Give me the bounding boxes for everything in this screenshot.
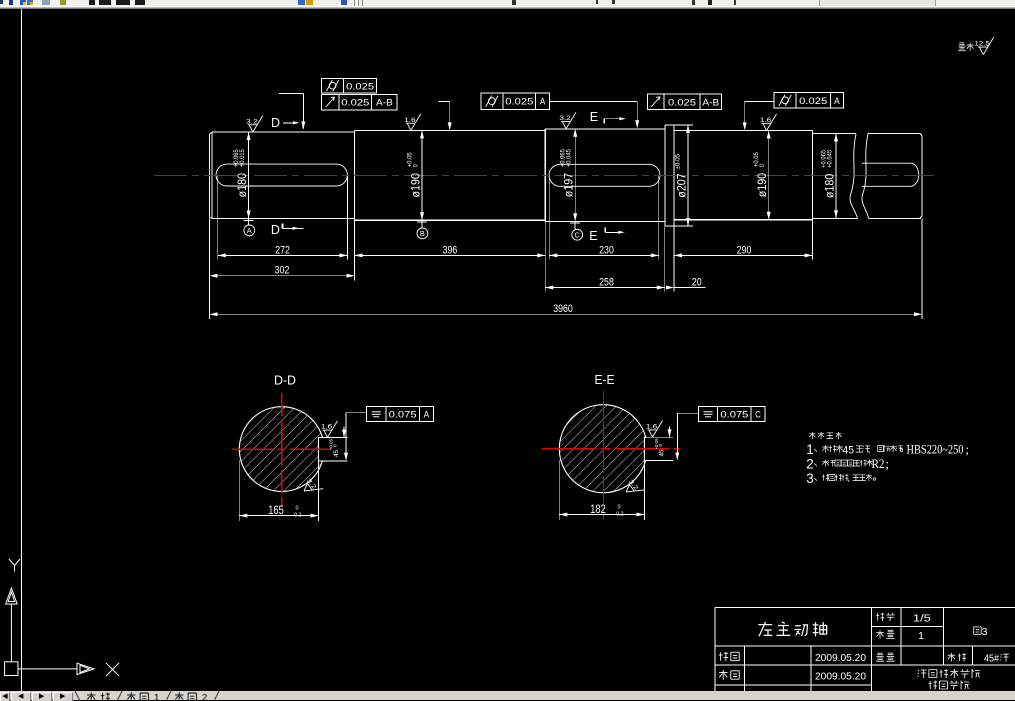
right journal stub before break [813, 134, 858, 219]
svg-text:+0.045: +0.045 [828, 149, 834, 168]
dia dim 190 seg2 [421, 130, 423, 220]
svg-text:±0.05: ±0.05 [675, 153, 682, 169]
svg-text:272: 272 [275, 244, 290, 256]
svg-text:1.6: 1.6 [760, 118, 772, 124]
label 重量 [876, 653, 895, 661]
FCF: circular runout 0.025 A-B [322, 94, 398, 110]
svg-text:A: A [540, 97, 546, 108]
svg-text:D: D [271, 116, 280, 130]
svg-text:0: 0 [760, 164, 766, 168]
svg-text:12.5: 12.5 [975, 42, 991, 48]
dia dim 207 disc [674, 124, 693, 126]
svg-text:+0.015: +0.015 [240, 149, 246, 168]
FCF symmetry 0.075 C (E-E) [698, 406, 765, 421]
dia dim 197 seg3 [574, 129, 576, 222]
svg-text:ø197: ø197 [562, 173, 576, 198]
svg-text:-0.2: -0.2 [615, 512, 624, 518]
svg-text:20: 20 [692, 277, 702, 289]
roughness symbol seg3 3.2 [559, 112, 576, 129]
roughness symbol seg2 1.6 [404, 114, 421, 131]
svg-text:2: 2 [806, 457, 814, 472]
svg-text:0.075: 0.075 [389, 410, 417, 421]
shaft segment 1 outline (dia 180 journal with keyway) [210, 125, 923, 226]
leader FCF2 to segment 3 [549, 101, 637, 103]
svg-text:D: D [271, 223, 280, 237]
dim 396 [355, 254, 546, 256]
UCS icon [5, 559, 119, 676]
FCF: circular runout 0.025 A-B (disc) [647, 94, 721, 109]
svg-text:A: A [247, 226, 252, 235]
dim 165 D-D [238, 460, 240, 521]
svg-text:0: 0 [618, 505, 621, 511]
drawing number 图3 [974, 627, 982, 635]
svg-text:ø190: ø190 [755, 173, 769, 198]
step shoulder seg1/seg2 [354, 130, 356, 220]
svg-text:R2: R2 [872, 457, 885, 471]
svg-text:1: 1 [154, 692, 159, 701]
svg-text:290: 290 [737, 244, 752, 256]
dia dim 180 right journal [835, 134, 837, 219]
svg-text:0.025: 0.025 [341, 98, 369, 109]
collar disc dia 207 [665, 125, 674, 226]
extension lines below shaft [210, 176, 923, 319]
roughness symbol seg1 3.2 [246, 116, 263, 133]
svg-text:2: 2 [202, 692, 207, 701]
shaft segment 3 outline (dia 197 with keyway) [545, 129, 665, 222]
svg-text:3: 3 [982, 626, 988, 638]
dim 258 [545, 287, 665, 289]
title block grid [715, 608, 1015, 692]
leader FCF to segment 4 [745, 100, 775, 102]
step shoulder seg2/seg3 [544, 129, 546, 222]
keyway slot right end (cut by break) [862, 163, 919, 186]
right end piece outline with chamfered end face [868, 134, 922, 219]
svg-text:258: 258 [599, 277, 614, 289]
svg-text:45: 45 [333, 450, 340, 457]
dim 272 keyway1 [218, 254, 348, 256]
svg-text:3: 3 [806, 471, 814, 486]
FCF symmetry 0.075 A (D-D) [367, 406, 434, 421]
dim 302 [210, 275, 355, 277]
technical requirements title [809, 432, 845, 439]
dim 230 keyway3 [549, 254, 659, 256]
leader to segment 2 [439, 100, 450, 102]
label 描图 [719, 670, 739, 680]
svg-text:HBS220~250: HBS220~250 [907, 443, 964, 457]
roughness circle E-E [622, 477, 645, 500]
svg-text:C: C [574, 231, 580, 240]
svg-text:1/5: 1/5 [913, 613, 931, 625]
svg-text:165: 165 [268, 505, 284, 517]
title: 左主动轴 [758, 622, 826, 636]
dia dim 190 seg4 [768, 131, 770, 220]
FCF stack: cylindricity 0.025 [322, 78, 377, 93]
svg-text:ø180: ø180 [823, 173, 837, 198]
break line right [862, 134, 869, 219]
svg-text:A: A [834, 96, 840, 107]
svg-text:E: E [589, 229, 597, 243]
roughness keyway D-D [321, 421, 338, 438]
step shoulder seg4/right journal [812, 131, 814, 220]
main red centerline [154, 174, 934, 176]
keyway slot 3 [549, 164, 660, 186]
general roughness note [958, 43, 974, 51]
bottom status bar with layout tabs [0, 691, 1015, 700]
FCF: cylindricity 0.025 A [481, 93, 550, 110]
svg-text:3960: 3960 [553, 303, 573, 315]
svg-text:1: 1 [918, 630, 924, 642]
svg-text:+0.05: +0.05 [654, 438, 659, 449]
svg-text:ø180: ø180 [235, 173, 249, 198]
datum B [417, 220, 428, 238]
roughness symbol seg4 1.6 [760, 114, 777, 131]
svg-text:A: A [424, 410, 430, 421]
svg-text:1.6: 1.6 [646, 425, 658, 431]
section D-D red crosshair [232, 448, 335, 450]
svg-text:0.025: 0.025 [668, 97, 696, 108]
svg-text:A-B: A-B [376, 98, 393, 109]
svg-text:0: 0 [296, 506, 299, 512]
svg-text:230: 230 [599, 244, 614, 256]
svg-text:3.2: 3.2 [246, 119, 258, 125]
svg-text:45: 45 [843, 445, 855, 457]
top toolbar strip [0, 0, 1015, 9]
svg-text:182: 182 [590, 504, 606, 516]
svg-text:B: B [420, 229, 425, 238]
section E-E circle with keyway notch, hatched [559, 405, 645, 493]
datum C [570, 222, 582, 241]
FCF: cylindricity 0.025 A (seg4) [774, 93, 843, 109]
school name [918, 669, 981, 678]
svg-text:1: 1 [806, 442, 814, 457]
dim 290 [674, 254, 813, 256]
svg-text:0.075: 0.075 [720, 410, 748, 421]
svg-text:-0.2: -0.2 [293, 513, 302, 519]
svg-text:0.025: 0.025 [799, 96, 827, 107]
shaft segment 2 outline (dia 190) [355, 130, 546, 220]
dim 3960 overall [210, 313, 923, 315]
svg-text:E: E [590, 110, 598, 124]
shaft segment 4 outline (dia 190) [674, 131, 813, 220]
svg-text:A-B: A-B [702, 97, 719, 108]
svg-text:1.6: 1.6 [321, 425, 333, 431]
svg-text:3.2: 3.2 [559, 116, 571, 122]
svg-text:+0.045: +0.045 [567, 148, 573, 167]
svg-text:2009.05.20: 2009.05.20 [815, 652, 866, 664]
svg-text:C: C [755, 410, 761, 421]
label 材料 [948, 653, 966, 662]
roughness circle D-D [300, 476, 323, 499]
section E-E red crosshair [542, 448, 681, 450]
keyway width extension lines E-E [646, 436, 673, 438]
dia dim 180 seg1 [248, 132, 250, 219]
svg-text:45#: 45# [984, 654, 999, 665]
svg-text:ø207: ø207 [675, 173, 689, 198]
svg-text:396: 396 [443, 244, 458, 256]
svg-text:2009.05.20: 2009.05.20 [815, 671, 866, 683]
dim 20 disc width [674, 287, 706, 289]
svg-text:ø190: ø190 [409, 173, 423, 198]
section D-D circle with keyway notch, hatched [239, 407, 322, 492]
svg-text:D-D: D-D [274, 374, 296, 388]
svg-text:+0.05: +0.05 [329, 439, 334, 450]
dim 182 E-E [558, 460, 560, 520]
label 制图 [719, 652, 739, 662]
svg-text:1.6: 1.6 [404, 118, 416, 124]
svg-text:45: 45 [659, 449, 666, 456]
svg-text:302: 302 [275, 265, 290, 277]
keyway width extension lines D-D [323, 437, 348, 439]
svg-text:;: ; [966, 443, 969, 457]
roughness keyway E-E [646, 421, 663, 438]
label 数量 [876, 630, 894, 639]
break line left [850, 134, 858, 219]
svg-text:0.025: 0.025 [346, 81, 374, 92]
datum A [244, 219, 255, 236]
keyway slot 1 [216, 164, 347, 186]
svg-text:E-E: E-E [595, 373, 615, 387]
svg-text:0.025: 0.025 [505, 97, 533, 108]
leader to section D cut [279, 92, 303, 94]
svg-text:0: 0 [414, 164, 420, 168]
label 比例 [876, 613, 895, 621]
left window border line [21, 9, 23, 691]
svg-text:;: ; [886, 457, 889, 471]
